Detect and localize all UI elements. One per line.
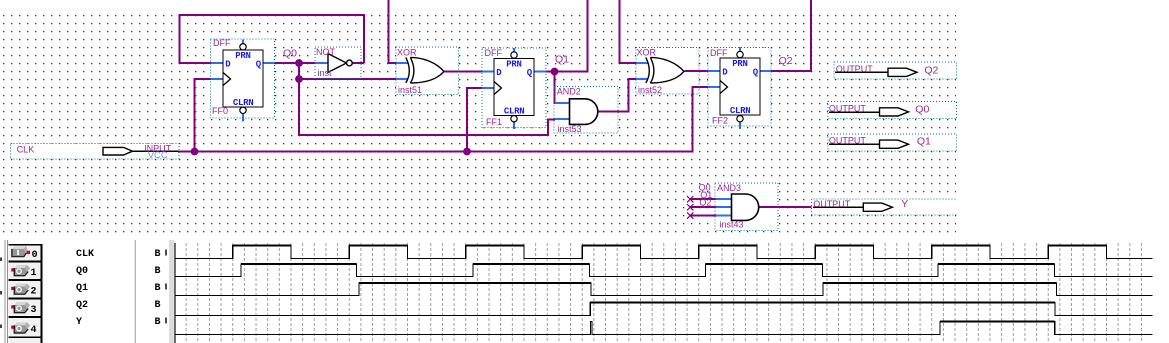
svg-text:inst53: inst53 — [558, 124, 582, 134]
svg-text:FF2: FF2 — [712, 116, 728, 126]
svg-text:XOR: XOR — [397, 48, 417, 58]
svg-text:inst43: inst43 — [720, 220, 744, 230]
svg-text:2: 2 — [31, 286, 37, 297]
svg-text:B: B — [155, 300, 161, 311]
svg-text:B: B — [155, 317, 161, 328]
svg-text:Q1: Q1 — [917, 136, 931, 148]
svg-text:DFF: DFF — [710, 48, 728, 58]
svg-text:inst: inst — [318, 68, 333, 78]
svg-text:XOR: XOR — [637, 48, 657, 58]
svg-text:Q: Q — [753, 68, 759, 78]
svg-text:Y: Y — [76, 317, 82, 328]
svg-text:OUTPUT: OUTPUT — [836, 64, 874, 74]
svg-text:Q0: Q0 — [76, 266, 88, 277]
svg-text:AND3: AND3 — [717, 183, 741, 193]
svg-text:inst51: inst51 — [398, 85, 422, 95]
svg-text:CLK: CLK — [17, 144, 35, 154]
svg-text:Q2: Q2 — [779, 55, 793, 67]
svg-text:OUTPUT: OUTPUT — [829, 136, 867, 146]
svg-text:inst52: inst52 — [638, 85, 662, 95]
svg-text:Q2: Q2 — [76, 300, 88, 311]
svg-text:FF0: FF0 — [212, 106, 228, 116]
svg-text:FF1: FF1 — [486, 117, 502, 127]
svg-text:AND2: AND2 — [557, 87, 581, 97]
svg-text:VCC: VCC — [148, 150, 168, 161]
svg-text:OUTPUT: OUTPUT — [813, 199, 851, 209]
svg-text:B: B — [155, 266, 161, 277]
svg-text:Q: Q — [527, 68, 533, 78]
svg-text:CLRN: CLRN — [504, 107, 524, 117]
svg-text:Q1: Q1 — [555, 54, 569, 66]
svg-text:Y: Y — [901, 198, 908, 210]
svg-text:Q: Q — [256, 60, 262, 70]
svg-text:NOT: NOT — [316, 47, 336, 57]
svg-text:PRN: PRN — [732, 59, 747, 69]
svg-text:PRN: PRN — [506, 59, 521, 69]
svg-text:Q2: Q2 — [924, 64, 938, 76]
svg-text:Q0: Q0 — [283, 48, 297, 60]
svg-text:Q1: Q1 — [76, 283, 88, 294]
svg-text:D: D — [722, 68, 728, 78]
svg-text:D: D — [496, 68, 502, 78]
svg-text:PRN: PRN — [235, 51, 250, 61]
svg-text:CLRN: CLRN — [730, 106, 750, 116]
svg-text:Q2: Q2 — [699, 198, 711, 208]
svg-text:DFF: DFF — [213, 38, 231, 48]
svg-text:CLK: CLK — [76, 249, 94, 260]
svg-text:Q0: Q0 — [915, 103, 929, 115]
svg-text:0: 0 — [32, 250, 38, 261]
svg-text:OUTPUT: OUTPUT — [829, 104, 867, 114]
svg-text:B: B — [155, 283, 161, 294]
svg-text:B: B — [155, 249, 161, 260]
svg-text:DFF: DFF — [485, 48, 503, 58]
svg-text:CLRN: CLRN — [233, 98, 253, 108]
svg-text:4: 4 — [31, 325, 37, 336]
svg-text:D: D — [225, 60, 231, 70]
svg-text:3: 3 — [31, 305, 37, 316]
svg-text:1: 1 — [31, 268, 37, 279]
